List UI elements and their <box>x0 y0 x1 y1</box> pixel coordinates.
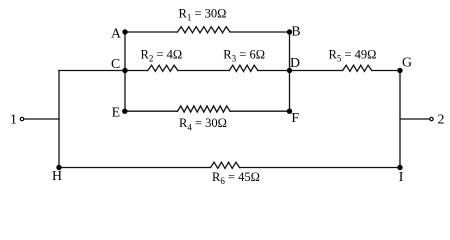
svg-text:B: B <box>291 24 300 39</box>
node F <box>287 109 292 114</box>
terminal 1 wire <box>25 118 60 120</box>
svg-text:C: C <box>111 56 120 71</box>
svg-text:G: G <box>402 54 412 69</box>
wire D to R5 <box>290 70 343 72</box>
resistor R3 <box>229 65 258 71</box>
svg-text:H: H <box>52 168 62 183</box>
wire B to D to F <box>289 32 291 111</box>
resistor R2 <box>148 65 178 71</box>
wire H to R6 <box>59 167 211 169</box>
svg-text:2: 2 <box>438 112 445 127</box>
wire R1 to B <box>230 31 290 33</box>
wire C to R2 <box>125 70 148 72</box>
svg-text:R4 = 30Ω: R4 = 30Ω <box>179 116 227 132</box>
wire C to E <box>124 71 126 112</box>
wire A to C <box>124 32 126 71</box>
wire R5 to G <box>372 70 400 72</box>
wire rail to C <box>59 70 125 72</box>
resistor R4 <box>178 106 231 112</box>
terminal 2 circle <box>430 117 433 120</box>
wire E to R4 <box>125 110 178 112</box>
wire R2 to R3 <box>178 70 229 72</box>
svg-text:R6 = 45Ω: R6 = 45Ω <box>212 170 260 186</box>
svg-text:R2 = 4Ω: R2 = 4Ω <box>141 47 183 63</box>
node H <box>56 165 61 170</box>
terminal 2 wire <box>400 118 429 120</box>
right rail wire G to I <box>399 71 401 168</box>
node C <box>122 68 127 73</box>
svg-text:R1 = 30Ω: R1 = 30Ω <box>179 6 227 22</box>
svg-text:E: E <box>112 105 120 120</box>
node B <box>287 29 292 34</box>
node A <box>122 29 127 34</box>
node I <box>397 165 402 170</box>
node G <box>397 68 402 73</box>
terminal 1 circle <box>20 117 23 120</box>
wire A to B top left segment <box>125 31 178 33</box>
left rail wire <box>58 71 60 168</box>
svg-text:R3 = 6Ω: R3 = 6Ω <box>223 47 265 63</box>
svg-text:F: F <box>291 110 299 125</box>
svg-text:A: A <box>111 26 121 41</box>
resistor R6 <box>211 162 240 168</box>
svg-text:R5 = 49Ω: R5 = 49Ω <box>329 47 377 63</box>
svg-text:D: D <box>290 55 300 70</box>
wire R6 to I <box>240 167 401 169</box>
node E <box>122 109 127 114</box>
svg-text:1: 1 <box>10 111 17 126</box>
wire R4 to F <box>230 110 290 112</box>
resistor R1 <box>178 27 231 33</box>
svg-text:I: I <box>399 169 404 184</box>
resistor R5 <box>343 65 372 71</box>
wire R3 to D <box>258 70 290 72</box>
node D <box>287 68 292 73</box>
